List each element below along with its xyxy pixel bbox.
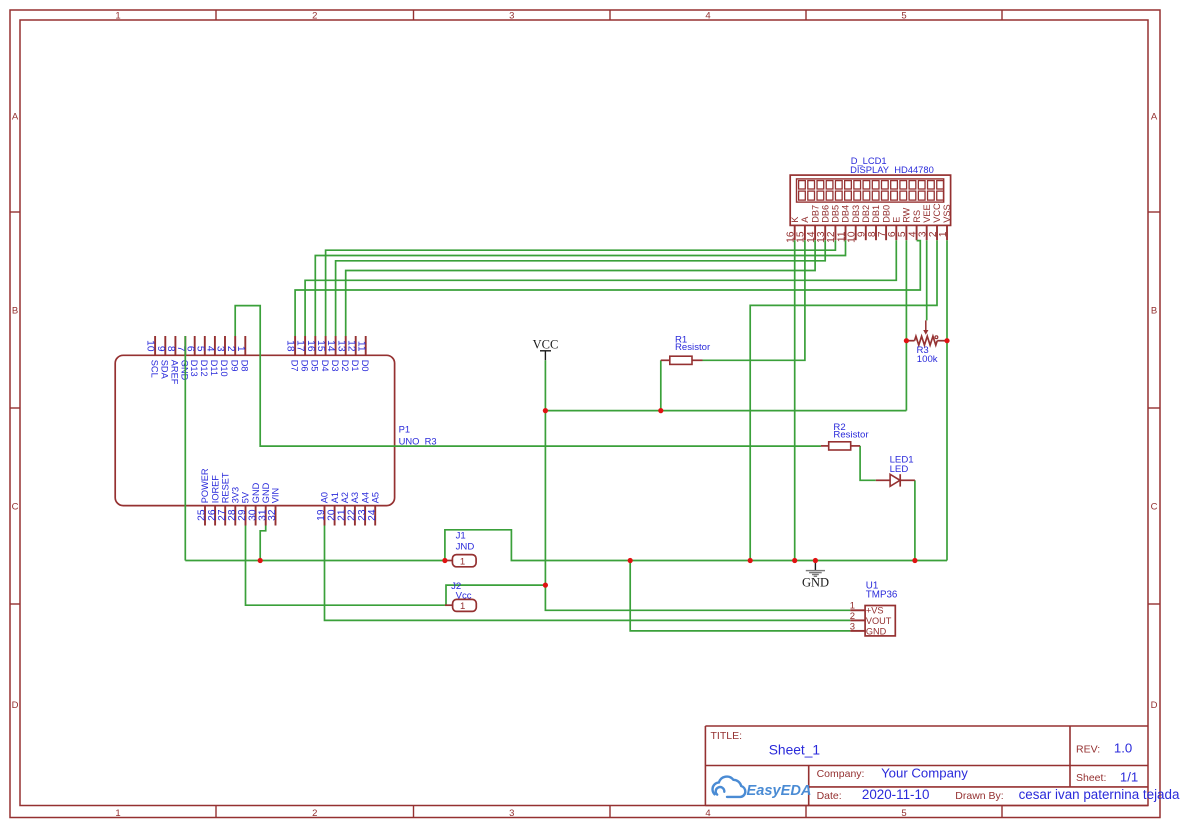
P1 pin 15 D4 (315, 336, 330, 372)
svg-text:D2: D2 (340, 360, 350, 372)
svg-text:DB5: DB5 (831, 205, 841, 223)
LCD1 pin 6 E (887, 217, 901, 241)
wire GND from P1 pin 7 (184, 336, 186, 561)
svg-text:3: 3 (509, 808, 514, 819)
P1 pin 13 D2 (335, 336, 350, 372)
svg-text:3: 3 (215, 346, 226, 352)
P1 pin 6 D13 (184, 336, 199, 377)
svg-text:4: 4 (205, 346, 216, 352)
svg-text:2: 2 (312, 10, 317, 21)
P1 pin 2 D9 (225, 336, 240, 372)
svg-text:VCC: VCC (533, 338, 559, 352)
svg-text:RS: RS (912, 210, 922, 223)
P1 pin 27 RESET (217, 472, 231, 525)
svg-text:D4: D4 (320, 360, 330, 372)
svg-text:VIN: VIN (271, 488, 281, 503)
svg-text:EasyEDA: EasyEDA (747, 783, 812, 799)
svg-text:32: 32 (267, 509, 278, 521)
display LCD1 DISPLAY_HD44780 (786, 155, 953, 243)
svg-text:D: D (1151, 700, 1158, 711)
svg-text:C: C (12, 502, 19, 513)
svg-text:1: 1 (460, 557, 465, 568)
svg-text:3V3: 3V3 (231, 487, 241, 503)
svg-text:D12: D12 (199, 360, 209, 377)
svg-text:17: 17 (295, 340, 306, 352)
svg-text:10: 10 (145, 340, 156, 352)
LCD1 pin 11 DB4 (836, 205, 850, 242)
svg-text:D6: D6 (299, 360, 309, 372)
svg-text:UNO_R3: UNO_R3 (399, 436, 437, 447)
svg-text:DB0: DB0 (881, 205, 891, 223)
LCD1 pin 12 DB5 (826, 205, 840, 243)
svg-text:DB6: DB6 (820, 205, 830, 223)
svg-text:VSS: VSS (942, 204, 952, 222)
P1 pin 29 5V (237, 491, 251, 525)
svg-text:D10: D10 (219, 360, 229, 377)
svg-text:REV:: REV: (1076, 743, 1100, 755)
wire D4 to LCD DB5 (326, 240, 836, 336)
svg-text:RW: RW (902, 207, 912, 222)
svg-text:4: 4 (705, 10, 710, 21)
svg-text:1: 1 (938, 231, 949, 237)
svg-text:1: 1 (460, 601, 465, 612)
P1 pin 25 POWER (197, 468, 211, 525)
svg-text:8: 8 (165, 346, 176, 352)
svg-text:D8: D8 (240, 360, 250, 372)
svg-text:5V: 5V (241, 491, 251, 503)
svg-text:1: 1 (115, 10, 120, 21)
svg-text:2020-11-10: 2020-11-10 (862, 787, 930, 802)
svg-text:2: 2 (225, 346, 236, 352)
svg-text:15: 15 (315, 340, 326, 352)
svg-text:Sheet:: Sheet: (1076, 772, 1106, 784)
junction LED drop on rail (912, 558, 917, 563)
P1 pin 30 GND (247, 482, 260, 525)
svg-text:D1: D1 (350, 360, 360, 372)
svg-text:D11: D11 (209, 360, 219, 376)
P1 pin 4 D11 (205, 336, 220, 376)
wire LCD K to GND rail (794, 240, 796, 560)
svg-text:Date:: Date: (817, 790, 842, 802)
svg-text:A: A (12, 112, 19, 123)
svg-text:C: C (1151, 502, 1158, 513)
P1 pin 26 IOREF (207, 475, 221, 526)
svg-text:SDA: SDA (160, 360, 170, 380)
svg-text:JND: JND (456, 541, 475, 552)
P1 pin 11 D0 (355, 336, 370, 372)
junction R3 right / VSS (944, 338, 949, 343)
connector J2 Vcc (445, 581, 476, 612)
svg-text:1.0: 1.0 (1114, 741, 1132, 756)
svg-text:A4: A4 (360, 492, 370, 503)
wire R2 to LED1 anode (860, 446, 876, 480)
wire A0 to TMP36 VOUT (325, 526, 851, 621)
junction R1 lead (658, 408, 663, 413)
svg-text:4: 4 (705, 808, 710, 819)
wire P1 GND pin 31 to rail (260, 526, 266, 561)
LCD1 pin 1 VSS (938, 204, 952, 240)
svg-text:A2: A2 (340, 492, 350, 503)
P1 pin 1 D8 (235, 336, 250, 372)
svg-text:D7: D7 (289, 360, 299, 372)
U1 pin 2 VOUT (850, 611, 892, 626)
wire R1 left lead to VCC net (660, 360, 662, 410)
P1 pin 17 D6 (295, 336, 310, 372)
wire J2 to P1 5V pin 29 (246, 526, 445, 606)
P1 pin 10 SCL (145, 336, 160, 378)
wire LCD VCC to GND rail (750, 240, 937, 560)
svg-text:16: 16 (305, 340, 316, 352)
svg-text:DB4: DB4 (841, 205, 851, 223)
svg-text:GND: GND (251, 482, 261, 503)
LCD1 pin 3 VEE (918, 204, 932, 240)
svg-text:A0: A0 (320, 492, 330, 503)
svg-text:3: 3 (509, 10, 514, 21)
svg-text:Resistor: Resistor (675, 342, 711, 353)
svg-text:1/1: 1/1 (1120, 769, 1138, 784)
P1 pin 20 A1 (326, 492, 340, 526)
wire J2 to VCC net (445, 585, 546, 605)
ground GND (802, 561, 829, 590)
connector J1 JND (445, 530, 476, 567)
svg-text:RESET: RESET (220, 472, 230, 503)
svg-text:3: 3 (850, 621, 855, 632)
svg-text:5: 5 (194, 346, 205, 352)
svg-text:DB3: DB3 (851, 205, 861, 223)
wire D2 to LCD DB7 (346, 240, 815, 336)
svg-text:12: 12 (345, 340, 356, 352)
svg-text:A1: A1 (330, 492, 340, 503)
junction R3 left / RW (904, 338, 909, 343)
wire VCC net vertical to TMP36 +VS (545, 360, 850, 610)
P1 pin 32 VIN (267, 488, 281, 526)
svg-text:B: B (12, 306, 18, 317)
LCD1 pin 16 K (786, 216, 800, 243)
LCD1 pin 14 DB7 (806, 205, 820, 243)
P1 pin 12 D1 (345, 336, 360, 372)
P1 pin 22 A3 (347, 492, 361, 526)
svg-text:VOUT: VOUT (866, 616, 892, 626)
svg-text:J1: J1 (456, 530, 466, 541)
P1 pin 19 A0 (316, 492, 330, 526)
svg-text:GND: GND (802, 576, 829, 590)
wire VCC net horizontal to R1 and RW (545, 410, 906, 412)
svg-text:14: 14 (325, 340, 336, 352)
junction LCD VCC drop (748, 558, 753, 563)
svg-text:DB1: DB1 (871, 205, 881, 223)
junction LCD K on rail (792, 558, 797, 563)
wire D7 to LCD RS (295, 241, 920, 336)
P1 pin 8 AREF (165, 336, 180, 385)
LED LED1 (876, 455, 915, 487)
svg-text:POWER: POWER (200, 468, 210, 503)
wire D3 to LCD DB6 (336, 240, 826, 336)
potentiometer R3 100k (906, 320, 947, 365)
LCD1 pin 7 DB0 (877, 205, 891, 240)
wire LCD VSS to GND rail (946, 240, 948, 560)
wire GND rail to TMP36 GND (630, 561, 850, 631)
svg-text:cesar ivan paternina tejada: cesar ivan paternina tejada (1019, 787, 1180, 802)
P1 pin 7 GND (175, 336, 190, 381)
P1 pin 28 3V3 (227, 487, 241, 526)
wire D9 to R2 (235, 306, 821, 447)
svg-text:1: 1 (115, 808, 120, 819)
junction TMP36 GND drop (628, 558, 633, 563)
P1 pin 23 A4 (357, 492, 371, 526)
svg-text:DB7: DB7 (810, 205, 820, 223)
svg-text:A5: A5 (370, 492, 380, 503)
svg-text:Your Company: Your Company (881, 766, 968, 781)
resistor R1 (661, 335, 711, 365)
svg-text:D9: D9 (229, 360, 239, 372)
svg-text:Resistor: Resistor (833, 430, 869, 441)
svg-text:Drawn By:: Drawn By: (955, 790, 1003, 802)
LCD1 body (790, 175, 950, 225)
LCD1 pin 5 RW (897, 207, 911, 240)
LCD1 character cell grid (797, 179, 944, 202)
svg-text:2: 2 (312, 808, 317, 819)
P1 pin 9 SDA (155, 336, 170, 380)
svg-text:GND: GND (866, 626, 887, 636)
svg-text:Company:: Company: (817, 768, 865, 780)
svg-text:24: 24 (367, 509, 378, 521)
P1 pin 3 D10 (215, 336, 230, 377)
junction J2 jog on VCC (543, 583, 548, 588)
P1 body (115, 355, 394, 505)
P1 pin 18 D7 (285, 336, 300, 372)
junction GND symbol (813, 558, 818, 563)
LCD1 pin 4 RS (907, 210, 921, 240)
svg-text:GND: GND (261, 482, 271, 503)
IC U1 TMP36 (850, 580, 898, 636)
svg-text:K: K (790, 216, 800, 223)
wire LCD RW to VCC net (905, 240, 907, 410)
LCD1 pin 2 VCC (928, 203, 942, 240)
junction P1 pin31 on rail (258, 558, 263, 563)
U1 pin 3 GND (850, 621, 887, 636)
svg-text:Sheet_1: Sheet_1 (769, 743, 820, 758)
svg-text:IOREF: IOREF (210, 475, 220, 503)
svg-text:D3: D3 (330, 360, 340, 372)
svg-text:5: 5 (901, 10, 906, 21)
U1 body (865, 606, 895, 636)
svg-text:13: 13 (335, 340, 346, 352)
svg-text:TMP36: TMP36 (866, 590, 898, 601)
P1 pin 14 D3 (325, 336, 340, 372)
svg-text:A: A (1151, 112, 1158, 123)
wire GND rail (185, 560, 445, 562)
svg-text:9: 9 (155, 346, 166, 352)
wire D5 to LCD DB4 (315, 240, 845, 336)
svg-text:B: B (1151, 306, 1157, 317)
svg-text:VCC: VCC (932, 203, 942, 223)
svg-text:VEE: VEE (922, 204, 932, 222)
svg-text:LED: LED (890, 464, 909, 475)
svg-text:100k: 100k (917, 354, 938, 365)
svg-text:AREF: AREF (170, 360, 180, 385)
svg-text:DB2: DB2 (861, 205, 871, 223)
wire LCD A to R1 (703, 240, 805, 360)
P1 pin 16 D5 (305, 336, 320, 372)
wire D6 to LCD E (305, 240, 896, 336)
LCD1 pin 8 DB1 (867, 205, 881, 240)
LCD1 pin 9 DB2 (857, 205, 871, 240)
junction J1 pin on rail (442, 558, 447, 563)
svg-text:D0: D0 (360, 360, 370, 372)
P1 pin 31 GND (257, 482, 271, 525)
LCD1 pin 15 A (796, 216, 810, 243)
svg-text:7: 7 (175, 346, 186, 352)
svg-text:E: E (892, 217, 902, 223)
LCD1 pin 13 DB6 (816, 205, 830, 243)
svg-text:D5: D5 (310, 360, 320, 372)
IC P1 UNO_R3 (Arduino) (115, 336, 436, 526)
svg-text:A3: A3 (350, 492, 360, 503)
svg-text:2: 2 (850, 611, 855, 622)
wire LED1 cathode to GND rail (914, 480, 916, 560)
svg-text:P1: P1 (399, 423, 410, 434)
LCD1 pin 10 DB3 (847, 205, 861, 243)
svg-text:11: 11 (355, 341, 366, 352)
P1 pin 24 A5 (367, 492, 381, 526)
wire GND rail hop over J1 (445, 530, 947, 561)
svg-text:SCL: SCL (149, 360, 159, 378)
svg-text:1: 1 (235, 346, 246, 352)
wire LCD VEE to R3 wiper (926, 240, 928, 320)
P1 pin 21 A2 (337, 492, 351, 526)
svg-text:TITLE:: TITLE: (711, 730, 743, 742)
resistor R2 (821, 422, 869, 450)
svg-text:5: 5 (901, 808, 906, 819)
junction VCC-R1 horizontal (543, 408, 548, 413)
U1 pin 1 +VS (850, 601, 884, 616)
power flag VCC (533, 338, 559, 361)
P1 pin 5 D12 (194, 336, 209, 377)
svg-text:+VS: +VS (866, 606, 884, 616)
svg-text:DISPLAY_HD44780: DISPLAY_HD44780 (850, 164, 934, 175)
svg-text:18: 18 (285, 340, 296, 352)
svg-text:D: D (12, 700, 19, 711)
svg-text:A: A (800, 216, 810, 223)
svg-text:D13: D13 (189, 360, 199, 377)
